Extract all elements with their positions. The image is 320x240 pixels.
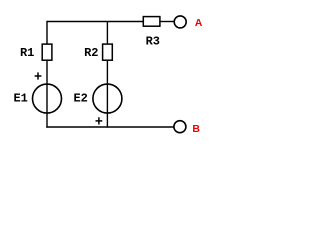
resistor R3 (143, 17, 160, 27)
wire middle branch bottom through E2 (106, 61, 108, 128)
terminal A (174, 16, 186, 28)
svg-text:B: B (192, 123, 200, 135)
plus sign E2 (96, 117, 103, 124)
wire middle branch top (106, 22, 108, 44)
resistor R2 (103, 44, 113, 60)
svg-text:E2: E2 (73, 92, 87, 106)
plus sign E1 (35, 72, 42, 79)
terminal B (174, 121, 186, 133)
wire bottom horizontal (46, 126, 174, 128)
wire left branch top (46, 21, 48, 44)
source E1 (33, 84, 62, 113)
svg-text:R1: R1 (20, 46, 34, 60)
svg-text:E1: E1 (13, 91, 27, 105)
source E2 (93, 84, 122, 113)
wire R3 to terminal A (161, 21, 175, 23)
wire top horizontal (47, 21, 143, 23)
wire left branch bottom through E1 (46, 61, 48, 128)
svg-text:R2: R2 (84, 46, 98, 60)
svg-text:R3: R3 (146, 35, 160, 49)
svg-text:A: A (195, 17, 203, 29)
resistor R1 (42, 44, 52, 60)
